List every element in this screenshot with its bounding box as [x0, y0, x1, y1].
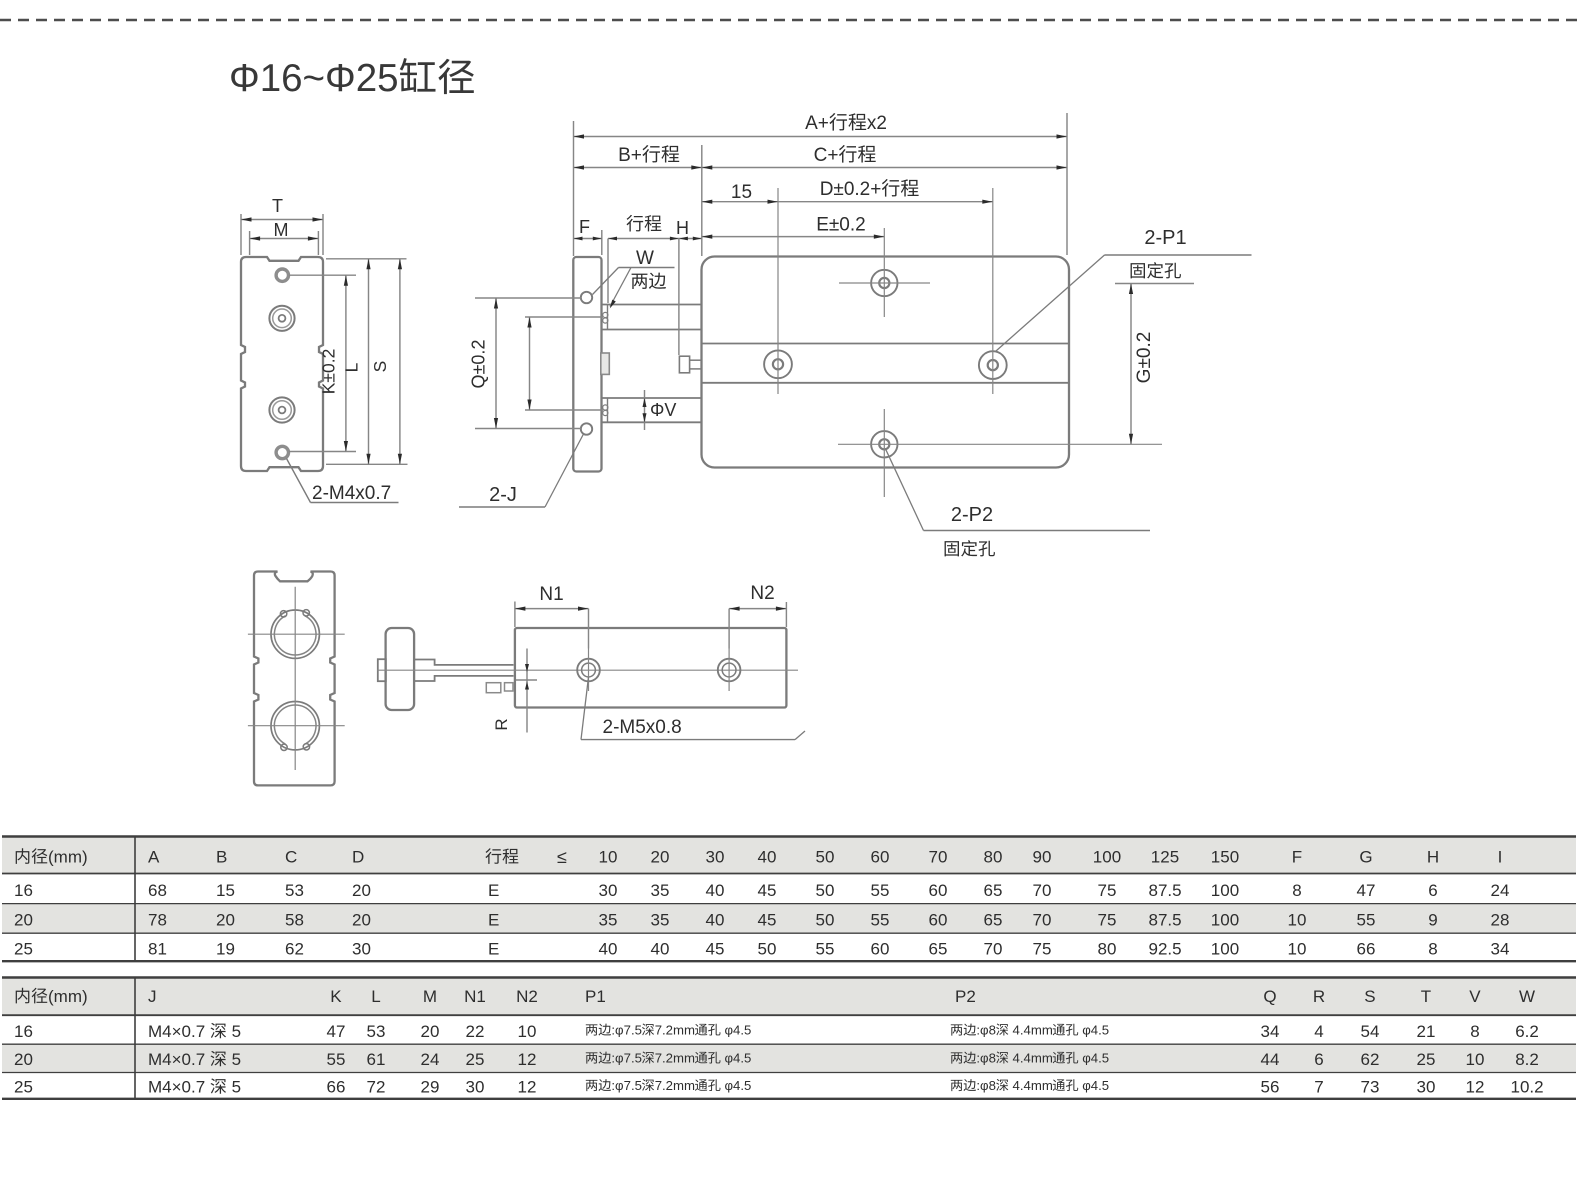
- svg-text:35: 35: [599, 911, 618, 930]
- svg-text:T: T: [1421, 987, 1431, 1006]
- svg-text:K±0.2: K±0.2: [319, 349, 339, 395]
- dimension S (body height): [377, 258, 407, 260]
- svg-text:40: 40: [599, 940, 618, 959]
- threaded hole 2-M5x0.8 left: [577, 659, 600, 682]
- svg-text:S: S: [1364, 987, 1375, 1006]
- svg-text:70: 70: [929, 848, 948, 867]
- svg-text:65: 65: [984, 881, 1003, 900]
- svg-text:24: 24: [421, 1050, 440, 1069]
- svg-text:20: 20: [651, 848, 670, 867]
- table1 column divider: [134, 836, 136, 961]
- dimension E±0.2: [702, 236, 885, 238]
- svg-text:x2: x2: [867, 113, 887, 134]
- svg-text:D±0.2+: D±0.2+: [820, 179, 882, 200]
- svg-text:20: 20: [352, 881, 371, 900]
- svg-text::φ7.5: :φ7.5: [611, 1023, 642, 1038]
- svg-text:75: 75: [1098, 911, 1117, 930]
- end view centerlines: [248, 633, 345, 635]
- svg-text:I: I: [1498, 848, 1503, 867]
- bumper block on plate inner face: [601, 353, 610, 374]
- svg-text::φ8: :φ8: [976, 1078, 996, 1093]
- svg-text:W: W: [636, 248, 654, 269]
- svg-text:2-M5x0.8: 2-M5x0.8: [603, 717, 682, 738]
- main body block: [702, 257, 1070, 468]
- bottom view: moving plate: [386, 628, 415, 710]
- svg-text:H: H: [676, 218, 689, 238]
- svg-text:21: 21: [1417, 1022, 1436, 1041]
- svg-text:15: 15: [731, 182, 752, 203]
- svg-text:29: 29: [421, 1078, 440, 1097]
- svg-text:20: 20: [352, 911, 371, 930]
- svg-text:60: 60: [929, 911, 948, 930]
- svg-text:≤: ≤: [557, 847, 567, 867]
- plate port hole top (W): [581, 292, 592, 303]
- svg-text:62: 62: [285, 940, 304, 959]
- svg-text:150: 150: [1211, 848, 1239, 867]
- svg-text:65: 65: [984, 911, 1003, 930]
- svg-text::φ7.5: :φ7.5: [611, 1051, 642, 1066]
- svg-text:40: 40: [651, 940, 670, 959]
- table1 header band: [2, 837, 1576, 873]
- lower piston rod: [602, 397, 702, 399]
- svg-text:(mm): (mm): [48, 987, 88, 1006]
- svg-text:G±0.2: G±0.2: [1134, 332, 1155, 384]
- svg-text:22: 22: [466, 1022, 485, 1041]
- svg-text:φ4.5: φ4.5: [1082, 1051, 1109, 1066]
- svg-text:Q: Q: [1263, 987, 1276, 1006]
- svg-text:62: 62: [1361, 1050, 1380, 1069]
- svg-text:φ4.5: φ4.5: [1082, 1023, 1109, 1038]
- svg-text:10: 10: [518, 1022, 537, 1041]
- svg-text::φ8: :φ8: [976, 1051, 996, 1066]
- svg-text:60: 60: [929, 881, 948, 900]
- svg-text:44: 44: [1261, 1050, 1280, 1069]
- svg-text:30: 30: [706, 848, 725, 867]
- bottom view: rod boss: [414, 660, 513, 682]
- svg-text:65: 65: [929, 940, 948, 959]
- svg-text:20: 20: [14, 911, 33, 930]
- svg-text:7.2mm: 7.2mm: [655, 1051, 695, 1066]
- svg-text:10: 10: [1466, 1050, 1485, 1069]
- upper bore circle with circlip: [271, 610, 319, 658]
- label W (port, both sides) with leaders: [619, 267, 675, 269]
- svg-text:F: F: [579, 217, 590, 237]
- svg-text:47: 47: [327, 1022, 346, 1041]
- dimension R: [526, 649, 528, 733]
- svg-text:K: K: [330, 987, 342, 1006]
- svg-text:C+: C+: [814, 145, 839, 166]
- upper rod thread symbol: [603, 312, 608, 317]
- svg-text:C: C: [285, 848, 297, 867]
- dimension B+stroke: [701, 145, 703, 256]
- svg-text:12: 12: [518, 1078, 537, 1097]
- label 2-P1 fixing hole with leader: [996, 255, 1105, 351]
- svg-text:73: 73: [1361, 1078, 1380, 1097]
- lower rod thread symbol: [603, 405, 608, 410]
- svg-text:R: R: [492, 718, 511, 730]
- svg-text:φ4.5: φ4.5: [725, 1078, 752, 1093]
- svg-text:A: A: [148, 848, 160, 867]
- svg-text:19: 19: [216, 940, 235, 959]
- svg-text:8: 8: [1292, 881, 1301, 900]
- svg-text:34: 34: [1261, 1022, 1280, 1041]
- dimension C+stroke: [702, 167, 1067, 169]
- table1 header text: [16, 848, 30, 864]
- svg-text:2-P1: 2-P1: [1144, 227, 1186, 249]
- svg-text:15: 15: [216, 881, 235, 900]
- dimension G±0.2 (mounting hole spacing): [1115, 283, 1194, 285]
- svg-text:B: B: [216, 848, 227, 867]
- svg-text:40: 40: [706, 911, 725, 930]
- svg-text:30: 30: [599, 881, 618, 900]
- svg-text:24: 24: [1491, 881, 1510, 900]
- svg-text:55: 55: [871, 881, 890, 900]
- svg-text:58: 58: [285, 911, 304, 930]
- svg-text:125: 125: [1151, 848, 1179, 867]
- svg-text:V: V: [1469, 987, 1481, 1006]
- svg-text:L: L: [371, 987, 380, 1006]
- svg-text:M4×0.7: M4×0.7: [148, 1022, 205, 1041]
- svg-text:50: 50: [758, 940, 777, 959]
- upper piston rod: [602, 304, 702, 306]
- svg-text:2-M4x0.7: 2-M4x0.7: [312, 483, 391, 504]
- svg-text::φ8: :φ8: [976, 1023, 996, 1038]
- svg-text:N2: N2: [750, 583, 774, 604]
- svg-text:45: 45: [706, 940, 725, 959]
- svg-text:4.4mm: 4.4mm: [1013, 1051, 1053, 1066]
- svg-text:5: 5: [232, 1078, 241, 1097]
- svg-text:12: 12: [518, 1050, 537, 1069]
- centerline through rod axis: [377, 669, 798, 671]
- svg-text:100: 100: [1211, 881, 1239, 900]
- svg-text:2-J: 2-J: [489, 484, 517, 506]
- bottom end view: body profile with bores: [254, 572, 335, 786]
- svg-text:80: 80: [1098, 940, 1117, 959]
- svg-text:6: 6: [1428, 881, 1437, 900]
- svg-text:20: 20: [421, 1022, 440, 1041]
- dimension N2: [728, 609, 730, 649]
- svg-text:5: 5: [232, 1050, 241, 1069]
- svg-text:16: 16: [14, 881, 33, 900]
- svg-text:68: 68: [148, 881, 167, 900]
- svg-text:34: 34: [1491, 940, 1510, 959]
- dimension rod spacing (inner): [525, 316, 603, 318]
- svg-text:78: 78: [148, 911, 167, 930]
- svg-text:55: 55: [327, 1050, 346, 1069]
- svg-text:R: R: [1313, 987, 1325, 1006]
- plate port hole bottom (2-J): [581, 423, 592, 434]
- svg-text:N2: N2: [516, 987, 538, 1006]
- dimension T (width over body): [240, 214, 242, 255]
- svg-text:2-P2: 2-P2: [951, 504, 993, 526]
- svg-text:30: 30: [352, 940, 371, 959]
- svg-text:6: 6: [1314, 1050, 1323, 1069]
- svg-text:80: 80: [984, 848, 1003, 867]
- svg-text::φ7.5: :φ7.5: [611, 1078, 642, 1093]
- svg-text:E: E: [488, 881, 499, 900]
- small tabs under rod at body face: [486, 683, 501, 693]
- svg-text:53: 53: [367, 1022, 386, 1041]
- svg-text:F: F: [1292, 848, 1302, 867]
- svg-text:54: 54: [1361, 1022, 1380, 1041]
- svg-text:A+: A+: [805, 113, 829, 134]
- bottom view: plate boss tab (left): [378, 659, 386, 681]
- svg-text:90: 90: [1033, 848, 1052, 867]
- svg-text:9: 9: [1428, 911, 1437, 930]
- table1 row-20 band: [2, 904, 1576, 933]
- left view: top small mounting hole 2-M4x0.7: [276, 269, 288, 281]
- svg-text:16: 16: [14, 1022, 33, 1041]
- svg-text:5: 5: [232, 1022, 241, 1041]
- svg-text:7.2mm: 7.2mm: [655, 1023, 695, 1038]
- svg-text:4: 4: [1314, 1022, 1323, 1041]
- svg-text:10: 10: [1288, 940, 1307, 959]
- svg-text:70: 70: [1033, 911, 1052, 930]
- left view: bottom small mounting hole: [276, 446, 288, 458]
- svg-text:87.5: 87.5: [1149, 881, 1182, 900]
- svg-text:20: 20: [216, 911, 235, 930]
- dimension Q±0.2 (plate holes span): [475, 297, 581, 299]
- svg-text:100: 100: [1093, 848, 1121, 867]
- label 2-M4x0.7 with leader to bottom hole: [287, 459, 311, 503]
- svg-text:55: 55: [816, 940, 835, 959]
- svg-text:50: 50: [816, 881, 835, 900]
- svg-text:Q±0.2: Q±0.2: [469, 340, 489, 389]
- svg-text:100: 100: [1211, 911, 1239, 930]
- svg-text:N1: N1: [464, 987, 486, 1006]
- dimension K±0.2 (between small holes): [289, 274, 356, 276]
- dimension ΦV (rod diameter): [644, 390, 646, 430]
- svg-text:66: 66: [1357, 940, 1376, 959]
- svg-text:60: 60: [871, 940, 890, 959]
- svg-text:40: 40: [706, 881, 725, 900]
- svg-text:S: S: [370, 361, 390, 373]
- svg-text:Φ16~Φ25: Φ16~Φ25: [229, 57, 399, 100]
- svg-text:55: 55: [1357, 911, 1376, 930]
- svg-text:30: 30: [1417, 1078, 1436, 1097]
- svg-text:56: 56: [1261, 1078, 1280, 1097]
- svg-text:30: 30: [466, 1078, 485, 1097]
- left view: lower rod bore (washer rings): [269, 397, 294, 422]
- svg-text:6.2: 6.2: [1515, 1022, 1539, 1041]
- svg-text:10.2: 10.2: [1511, 1078, 1544, 1097]
- svg-text:M: M: [274, 220, 289, 240]
- svg-text:4.4mm: 4.4mm: [1013, 1023, 1053, 1038]
- svg-text:66: 66: [327, 1078, 346, 1097]
- svg-text:P1: P1: [585, 987, 606, 1006]
- svg-text:20: 20: [14, 1050, 33, 1069]
- svg-text:E: E: [488, 940, 499, 959]
- svg-text:25: 25: [14, 1078, 33, 1097]
- svg-text:D: D: [352, 848, 364, 867]
- dimension M: [249, 231, 251, 255]
- svg-text:60: 60: [871, 848, 890, 867]
- svg-text:M4×0.7: M4×0.7: [148, 1078, 205, 1097]
- label 2-P2 fixing hole with leader: [886, 450, 924, 531]
- svg-text:70: 70: [1033, 881, 1052, 900]
- svg-text:8.2: 8.2: [1515, 1050, 1539, 1069]
- svg-text:50: 50: [816, 848, 835, 867]
- svg-text:P2: P2: [955, 987, 976, 1006]
- svg-text:4.4mm: 4.4mm: [1013, 1078, 1053, 1093]
- svg-text:10: 10: [1288, 911, 1307, 930]
- svg-text:45: 45: [758, 911, 777, 930]
- side view: moving end plate: [573, 257, 601, 472]
- air port fitting on body left face: [679, 356, 689, 373]
- threaded hole right: [718, 659, 741, 682]
- dimension row F / stroke / H: [601, 230, 603, 255]
- svg-text:E±0.2: E±0.2: [816, 215, 866, 236]
- svg-text:25: 25: [466, 1050, 485, 1069]
- top mounting hole 2-P1 (rear): [871, 270, 897, 296]
- svg-text:7: 7: [1314, 1078, 1323, 1097]
- svg-text:53: 53: [285, 881, 304, 900]
- table2 header: [16, 988, 30, 1004]
- bottom view: body: [515, 628, 787, 708]
- label 2-J with leader to bottom plate hole: [459, 506, 545, 508]
- svg-text:45: 45: [758, 881, 777, 900]
- dimension L: [326, 258, 377, 260]
- svg-text:(mm): (mm): [48, 848, 88, 867]
- svg-text:8: 8: [1428, 940, 1437, 959]
- svg-text:N1: N1: [539, 584, 563, 605]
- svg-text:25: 25: [1417, 1050, 1436, 1069]
- svg-text:12: 12: [1466, 1078, 1485, 1097]
- lower bore circle with circlip: [271, 702, 319, 750]
- svg-text:72: 72: [367, 1078, 386, 1097]
- svg-text:25: 25: [14, 940, 33, 959]
- svg-text:100: 100: [1211, 940, 1239, 959]
- svg-text:8: 8: [1470, 1022, 1479, 1041]
- svg-text:J: J: [148, 987, 157, 1006]
- body middle slot band: [702, 343, 1070, 345]
- dimension 15: [702, 201, 778, 203]
- svg-text:50: 50: [816, 911, 835, 930]
- svg-text:φ4.5: φ4.5: [1082, 1078, 1109, 1093]
- label 2-M5x0.8 with leader: [581, 677, 589, 740]
- svg-text:M4×0.7: M4×0.7: [148, 1050, 205, 1069]
- svg-text:B+: B+: [618, 145, 642, 166]
- svg-text:61: 61: [367, 1050, 386, 1069]
- svg-text:M: M: [423, 987, 437, 1006]
- svg-text:ΦV: ΦV: [650, 400, 676, 420]
- dimension D±0.2+stroke: [778, 201, 993, 203]
- svg-text:35: 35: [651, 881, 670, 900]
- svg-text:75: 75: [1098, 881, 1117, 900]
- svg-text:φ4.5: φ4.5: [725, 1051, 752, 1066]
- dimension A+stroke x2 (overall): [573, 121, 575, 256]
- svg-text:92.5: 92.5: [1149, 940, 1182, 959]
- svg-text:47: 47: [1357, 881, 1376, 900]
- page top dashed separator line: [0, 19, 1581, 21]
- svg-text:G: G: [1359, 848, 1372, 867]
- svg-text:φ4.5: φ4.5: [725, 1023, 752, 1038]
- svg-text:E: E: [488, 911, 499, 930]
- svg-text:L: L: [342, 362, 362, 372]
- svg-text:28: 28: [1491, 911, 1510, 930]
- svg-text:87.5: 87.5: [1149, 911, 1182, 930]
- side slot hole left: [764, 350, 792, 378]
- svg-text:10: 10: [599, 848, 618, 867]
- svg-text:35: 35: [651, 911, 670, 930]
- side slot hole right: [979, 351, 1007, 379]
- svg-text:55: 55: [871, 911, 890, 930]
- left end view: cylinder body cross-section outline: [241, 257, 323, 471]
- bottom mounting hole 2-P2: [871, 431, 897, 457]
- left view: upper rod bore (washer rings): [269, 306, 294, 331]
- svg-text:T: T: [272, 196, 283, 216]
- svg-text:W: W: [1519, 987, 1535, 1006]
- svg-text:70: 70: [984, 940, 1003, 959]
- svg-text:75: 75: [1033, 940, 1052, 959]
- svg-text:H: H: [1427, 848, 1439, 867]
- dimension N1: [514, 602, 516, 628]
- svg-text:40: 40: [758, 848, 777, 867]
- svg-text:81: 81: [148, 940, 167, 959]
- svg-text:7.2mm: 7.2mm: [655, 1078, 695, 1093]
